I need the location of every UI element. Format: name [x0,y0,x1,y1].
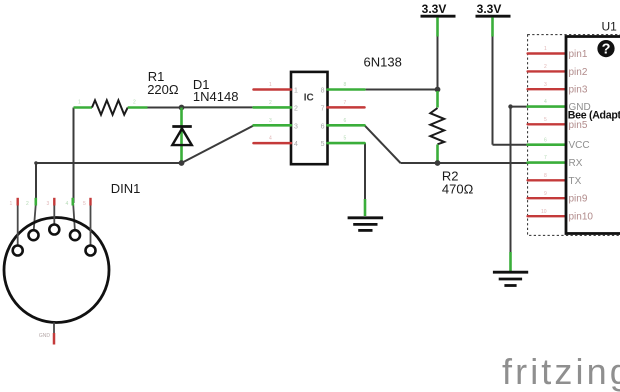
svg-text:pin2: pin2 [569,67,588,78]
svg-text:1: 1 [269,82,272,88]
svg-text:GND: GND [39,333,51,339]
IC pin 2 lead [254,100,292,107]
IC pin 3 lead [254,118,292,125]
XBee pin 2 lead [528,64,566,71]
XBee pin 3 lead [528,82,566,89]
wire IC pin6 diagonal to RX net [365,125,401,163]
XBee GND lead [528,99,566,106]
wire R1 right to diode top junction [147,107,182,109]
svg-text:VCC: VCC [569,140,590,151]
svg-text:pin3: pin3 [569,85,588,96]
junction node pin8/3.3V [435,87,441,93]
XBee pin 9 lead [528,191,566,198]
XBee RX lead [528,155,566,162]
wire diode top junction to IC pin2 [182,106,255,108]
svg-text:4: 4 [269,136,272,142]
svg-text:IC: IC [304,93,314,104]
XBee pin 5 lead [528,117,566,124]
svg-text:3: 3 [269,118,272,124]
ground below XBee [493,272,528,285]
IC pin 8 lead [328,82,365,90]
svg-text:2: 2 [544,64,547,70]
svg-text:2: 2 [133,100,136,106]
wire 3.3V #1 down to junction [437,18,439,90]
DIN pin 2 [26,198,39,240]
svg-text:1: 1 [78,100,81,106]
IC pin 6 lead [328,118,365,125]
junction node diode top [179,105,185,111]
svg-text:6: 6 [344,118,347,124]
svg-text:Bee (Adapter): Bee (Adapter) [568,109,620,121]
resistor R1 220 ohm [74,69,179,115]
svg-text:5: 5 [321,141,325,148]
wire RX net horizontal to XBee RX [401,162,530,164]
ground near IC pin5 [348,218,384,231]
wire IC pin5 down to ground [364,143,366,216]
svg-text:4: 4 [294,141,298,148]
svg-text:470Ω: 470Ω [442,182,474,197]
IC pin 4 lead [254,136,292,144]
svg-text:5: 5 [83,201,86,207]
XBee pin 10 lead [528,209,566,216]
DIN pin 4 [66,198,81,240]
DIN pin 5 [83,198,96,256]
IC pin 5 lead [328,136,365,144]
svg-text:1: 1 [544,46,547,52]
XBee module U1 dashed outline [528,35,620,236]
svg-text:7: 7 [321,105,325,112]
wire IC pin8 to 3.3V junction [365,89,438,91]
wire DIN pin2 up [34,163,36,230]
svg-text:pin5: pin5 [569,120,588,131]
diode D1 1N4148 [172,77,238,163]
svg-text:8: 8 [544,173,547,179]
svg-text:?: ? [602,42,611,58]
svg-text:3: 3 [294,123,298,130]
svg-text:5: 5 [544,117,547,123]
svg-text:2: 2 [294,105,298,112]
svg-text:5: 5 [344,136,347,142]
wire 3.3V #2 to XBee VCC [493,18,530,145]
svg-text:U1: U1 [602,20,618,34]
svg-text:2: 2 [26,201,29,207]
svg-text:7: 7 [544,155,547,161]
svg-text:2: 2 [269,100,272,106]
DIN pin 3 [47,198,60,235]
XBee TX lead [528,173,566,180]
svg-text:3: 3 [47,201,50,207]
svg-text:1: 1 [294,88,298,95]
svg-text:6: 6 [544,137,547,143]
svg-text:TX: TX [569,176,582,187]
svg-text:10: 10 [541,209,547,215]
DIN1 connector body [4,218,109,323]
DIN pin 1 [10,198,23,256]
power 3.3V rail #1 [421,2,456,16]
svg-text:3.3V: 3.3V [422,2,447,16]
svg-text:1: 1 [10,201,13,207]
wire diode bottom junction to IC pin3 (diagonal) [182,125,255,163]
wire XBee GND down to ground [508,104,529,271]
svg-text:9: 9 [544,191,547,197]
junction node R2 bottom / RX [435,160,441,166]
wire DIN pin4 to R1 left [73,108,75,231]
svg-text:4: 4 [66,201,69,207]
svg-text:8: 8 [344,82,347,88]
IC pin 7 lead [328,100,365,107]
svg-text:8: 8 [321,88,325,95]
svg-text:pin9: pin9 [569,194,588,205]
power 3.3V rail #2 [476,2,511,16]
svg-text:1N4148: 1N4148 [193,89,239,104]
op-to IC body [291,72,328,164]
svg-text:220Ω: 220Ω [147,82,179,97]
svg-text:pin10: pin10 [569,212,594,223]
IC pin 1 lead [254,82,292,90]
svg-text:7: 7 [344,100,347,106]
svg-text:3.3V: 3.3V [477,2,502,16]
svg-text:DIN1: DIN1 [111,181,141,196]
svg-text:6: 6 [321,123,325,130]
svg-text:fritzing: fritzing [502,351,620,392]
junction node diode bottom [179,160,185,166]
svg-text:4: 4 [544,99,547,105]
resistor R2 470 ohm [430,91,473,197]
DIN gnd stub [39,322,54,344]
svg-text:3: 3 [544,82,547,88]
svg-text:RX: RX [569,158,583,169]
XBee pin 1 lead [528,46,566,54]
XBee body [566,37,620,234]
help icon [597,40,614,58]
wire lower horizontal DIN pin2 to diode bottom junction [34,161,181,165]
svg-text:6N138: 6N138 [364,55,402,70]
svg-text:pin1: pin1 [569,49,588,60]
XBee VCC lead [528,137,566,144]
